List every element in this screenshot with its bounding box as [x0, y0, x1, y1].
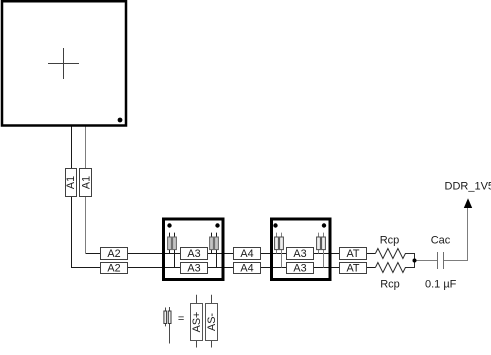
svg-text:AT: AT	[347, 263, 360, 275]
svg-text:0.1 µF: 0.1 µF	[425, 279, 457, 291]
svg-text:Rcp: Rcp	[380, 278, 400, 290]
svg-text:Cac: Cac	[431, 234, 451, 246]
svg-text:A3: A3	[293, 263, 306, 275]
svg-text:A3: A3	[187, 248, 200, 260]
svg-text:Rcp: Rcp	[380, 235, 400, 247]
svg-text:AS-: AS-	[206, 313, 218, 331]
svg-text:AT: AT	[347, 248, 360, 260]
svg-text:A2: A2	[107, 263, 120, 275]
svg-text:A3: A3	[187, 263, 200, 275]
svg-text:A1: A1	[65, 176, 77, 189]
svg-text:A1: A1	[80, 176, 92, 189]
svg-text:A4: A4	[240, 248, 253, 260]
svg-text:AS+: AS+	[191, 312, 203, 333]
svg-text:A4: A4	[240, 263, 253, 275]
svg-text:A2: A2	[107, 248, 120, 260]
svg-text:=: =	[178, 313, 184, 325]
svg-text:DDR_1V5: DDR_1V5	[445, 181, 491, 193]
svg-text:A3: A3	[293, 248, 306, 260]
